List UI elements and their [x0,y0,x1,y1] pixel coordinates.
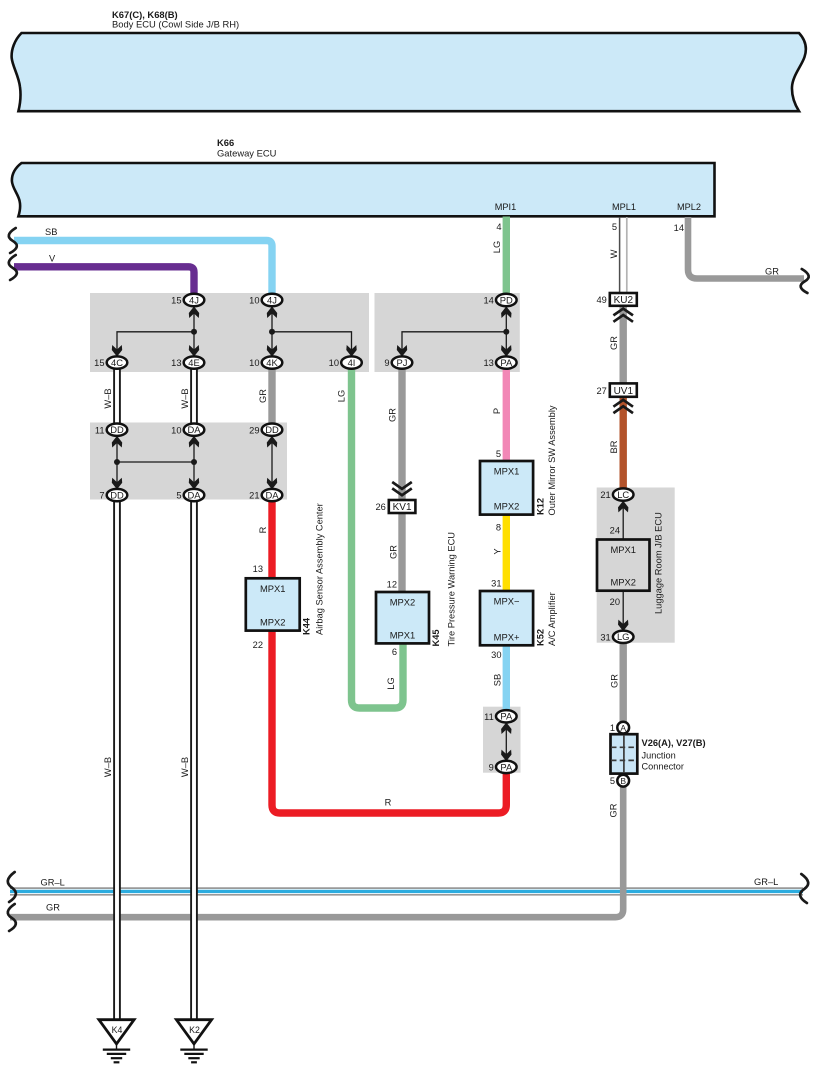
connector 4E pin 13 [171,356,204,368]
svg-text:9: 9 [489,763,494,773]
svg-text:Junction: Junction [642,750,676,760]
wire branch to PJ [402,332,506,357]
svg-text:22: 22 [253,640,263,650]
connector PD pin 14 [483,294,516,306]
break symbol V left [9,255,17,280]
connector UV1 pin 27 [596,383,636,396]
svg-text:11: 11 [484,712,494,722]
svg-text:13: 13 [253,564,263,574]
svg-text:4K: 4K [266,357,278,368]
wire LG MPI1 to PD [503,217,510,296]
junction dot B [269,329,275,335]
svg-text:LC: LC [617,489,629,500]
connector PA pin 9 [489,761,517,773]
ground K4 [99,1020,134,1063]
svg-text:A: A [620,723,626,733]
component MPX box of Luggage Room J/B ECU [597,540,650,591]
svg-text:PD: PD [500,294,513,305]
connector LG pin 31 [600,631,633,643]
svg-text:15: 15 [94,358,104,368]
arrow into 4C [112,345,122,357]
svg-text:Luggage Room J/B ECU: Luggage Room J/B ECU [654,512,664,614]
svg-text:K12: K12 [536,498,546,515]
svg-text:MPI1: MPI1 [495,202,516,212]
svg-text:31: 31 [491,579,501,589]
svg-text:MPX1: MPX1 [610,544,636,555]
wire GR PJ to KV1 [398,367,405,500]
svg-text:13: 13 [483,358,493,368]
arrow into LG31 [618,620,628,632]
arrow into 4I [346,345,356,357]
arrow into 4K [267,345,277,357]
svg-text:Tire Pressure Warning ECU: Tire Pressure Warning ECU [447,532,457,647]
svg-text:8: 8 [496,523,501,533]
svg-text:MPL2: MPL2 [677,202,701,212]
wire DD11 to DD7 link [116,436,118,489]
svg-text:W–B: W–B [180,757,190,777]
connector DA pin 21 [249,489,282,501]
svg-text:Gateway ECU: Gateway ECU [217,147,277,158]
svg-text:LG: LG [337,390,347,402]
svg-text:4J: 4J [267,294,277,305]
wire GR KV1 to K45 pin12 [398,513,405,592]
svg-text:6: 6 [392,647,397,657]
connector 4J pin 15 [171,294,204,306]
svg-text:5: 5 [176,491,181,501]
junction dot E [191,459,197,465]
svg-text:20: 20 [610,597,620,607]
svg-text:K52: K52 [536,629,546,646]
arrow into DD11 [112,436,122,448]
wire GR KU2 to UV1 [620,307,627,383]
svg-text:GR: GR [609,803,619,817]
svg-text:PJ: PJ [397,357,408,368]
wire DD29 to DA21 link [271,436,273,489]
svg-text:15: 15 [171,296,181,306]
wire PD to PA link [505,306,507,357]
wire W-B 4E to DA10 [191,367,197,424]
svg-text:B: B [620,776,626,786]
connector band DD/DA [90,423,287,500]
svg-text:K4: K4 [112,1025,123,1035]
component K44 Airbag Sensor Assembly Center [246,578,300,630]
wire W-B 4C to DD11 [114,367,120,424]
svg-text:DD: DD [110,424,124,435]
svg-text:4J: 4J [189,294,199,305]
wire DA10 to DA5 link [193,436,195,489]
svg-text:W: W [609,249,619,258]
junction connector circle A pin 1 [610,722,629,734]
svg-text:14: 14 [674,223,684,233]
svg-text:27: 27 [596,386,606,396]
break symbol SB left [9,228,17,253]
svg-text:V: V [49,254,56,264]
connector KU2 pin 49 [596,293,636,306]
ground K2 [176,1020,211,1063]
connector 4I pin 10 [329,356,362,368]
wire PA11 to PA9 link [505,722,507,761]
svg-text:GR–L: GR–L [41,878,65,888]
svg-text:5: 5 [496,449,501,459]
connector KV1 pin 26 [375,500,415,513]
wire GR 4K to DD [268,367,275,424]
svg-text:26: 26 [375,502,385,512]
svg-text:MPX−: MPX− [494,596,520,607]
connector DD pin 7 [99,489,127,501]
junction dot A [191,329,197,335]
wire 4J1 to 4E link [193,306,195,357]
arrow into PA9 [501,750,511,762]
svg-text:12: 12 [387,580,397,590]
svg-text:14: 14 [483,296,493,306]
wire GR LG31 to junction A [620,642,627,722]
svg-text:BR: BR [609,440,619,453]
svg-text:30: 30 [491,650,501,660]
connector PJ pin 9 [384,356,412,368]
svg-text:V26(A), V27(B): V26(A), V27(B) [642,738,706,748]
svg-text:R: R [258,526,268,533]
wire R K44 pin22 to PA9 [272,631,506,814]
svg-text:R: R [385,798,392,808]
wire W-B DD7 to ground K4 [114,500,120,1020]
svg-text:DA: DA [187,490,201,501]
svg-text:LG: LG [492,241,502,253]
svg-text:K44: K44 [302,617,312,635]
arrow into LC [618,501,628,513]
connector DD pin 11 [95,424,127,436]
connector band PA/PA [483,707,521,773]
svg-text:GR: GR [388,408,398,422]
svg-text:W–B: W–B [103,388,113,408]
svg-text:31: 31 [600,632,610,642]
svg-text:MPX1: MPX1 [494,466,520,477]
svg-text:Connector: Connector [642,761,684,771]
wire branch to 4C [117,332,194,357]
wire SB from Body ECU to 4J [14,241,272,296]
wire DD-DA crossover [117,461,194,463]
wire V from Body ECU to 4J [14,267,194,295]
connector 4K pin 10 [249,356,282,368]
shield arrow above KV1 [392,488,412,495]
wire R DA21 to K44 pin13 [268,500,275,578]
wire Y K12 pin8 to K52 pin31 [503,515,510,592]
wire 4J2 to 4K link [271,306,273,357]
arrow into 4J-2 [267,306,277,318]
arrow into 4E [189,345,199,357]
svg-text:W–B: W–B [180,388,190,408]
svg-text:7: 7 [99,491,104,501]
svg-text:MPX2: MPX2 [610,577,636,588]
svg-text:11: 11 [95,425,105,435]
svg-text:GR: GR [765,267,779,277]
arrow into PA11 [501,722,511,734]
arrow into DD29 [267,436,277,448]
arrow into PJ [397,345,407,357]
break symbol GR right [801,269,809,293]
svg-text:5: 5 [610,776,615,786]
svg-text:MPX2: MPX2 [494,501,520,512]
svg-text:LG: LG [386,677,396,689]
svg-text:49: 49 [596,295,606,305]
svg-text:A/C Amplifier: A/C Amplifier [547,592,557,646]
svg-text:GR: GR [258,389,268,403]
svg-text:13: 13 [171,358,181,368]
svg-text:MPL1: MPL1 [612,202,636,212]
arrow into DA21 [267,478,277,490]
arrow into PD [501,306,511,318]
svg-text:Airbag Sensor Assembly Center: Airbag Sensor Assembly Center [315,503,325,635]
junction connector circle B pin 5 [610,775,629,787]
svg-text:4E: 4E [188,357,199,368]
arrow into DA10 [189,436,199,448]
svg-text:21: 21 [249,491,259,501]
break symbol GR-L left [8,872,16,902]
svg-text:4I: 4I [348,357,356,368]
svg-text:MPX1: MPX1 [390,629,416,640]
svg-text:P: P [492,408,502,414]
arrow into PA [501,345,511,357]
ECU K66 Gateway ECU box [12,163,715,216]
svg-text:10: 10 [249,296,259,306]
svg-text:29: 29 [249,425,259,435]
svg-text:GR: GR [609,674,619,688]
svg-text:GR: GR [609,336,619,350]
connector 4J pin 10 [249,294,282,306]
svg-text:Body ECU (Cowl Side J/B RH): Body ECU (Cowl Side J/B RH) [112,19,239,30]
svg-text:Outer Mirror SW Assembly: Outer Mirror SW Assembly [547,405,557,515]
svg-text:K2: K2 [189,1025,200,1035]
svg-text:10: 10 [171,425,181,435]
connector LC pin 21 [600,488,633,500]
svg-text:PA: PA [500,711,513,722]
svg-text:UV1: UV1 [614,386,634,397]
connector DA pin 10 [171,424,204,436]
svg-text:5: 5 [612,222,617,232]
svg-text:PA: PA [500,761,513,772]
svg-text:SB: SB [493,674,503,686]
svg-text:PA: PA [500,357,513,368]
svg-text:W–B: W–B [103,757,113,777]
junction dot C [503,329,509,335]
svg-text:MPX2: MPX2 [260,617,286,628]
svg-text:DA: DA [265,490,279,501]
component K52 A/C Amplifier [480,591,533,645]
svg-text:4C: 4C [111,357,123,368]
svg-text:GR: GR [389,545,399,559]
component K45 Tire Pressure Warning ECU [376,592,429,643]
connector DD pin 29 [249,424,282,436]
svg-text:24: 24 [610,526,620,536]
svg-text:GR: GR [46,903,60,913]
wire LG 4I to K45 pin6 [352,367,404,708]
svg-text:21: 21 [600,490,610,500]
svg-text:DD: DD [265,424,279,435]
svg-text:10: 10 [249,358,259,368]
svg-text:KV1: KV1 [393,502,412,513]
connector 4C pin 15 [94,356,127,368]
break symbol GR-L right [800,874,808,903]
junction dot D [114,459,120,465]
svg-text:LG: LG [617,631,630,642]
svg-text:MPX+: MPX+ [494,631,520,642]
junction connector V26/V27 body [611,734,638,773]
wire LC to MPX box link [622,501,624,540]
wire P PA to K12 pin5 [503,368,510,461]
svg-text:4: 4 [496,222,501,232]
svg-text:Y: Y [493,548,503,554]
connector band 4J/4C/4E/4K/4I [90,293,369,372]
svg-text:DA: DA [187,424,201,435]
wire MPX box to LG link [622,591,624,632]
svg-text:MPX2: MPX2 [390,597,416,608]
connector DA pin 5 [176,489,204,501]
arrow into 4J-1 [189,306,199,318]
svg-text:K45: K45 [431,629,441,646]
wire GR junction B to left break [10,786,623,917]
wire GR MPL2 to right break [688,217,804,279]
connector band Luggage Room J/B ECU [597,488,675,643]
shield arrow below KU2 [613,309,633,316]
svg-text:DD: DD [110,490,124,501]
svg-text:KU2: KU2 [614,295,634,306]
svg-text:SB: SB [45,227,57,237]
wire W MPL1 to KU2 [620,217,627,293]
connector PA pin 13 [483,356,516,368]
connector band PD/PJ/PA [375,293,520,372]
component K12 Outer Mirror SW Assembly [480,461,533,515]
wire BR UV1 to LC [620,397,627,489]
arrow into DA5 [189,478,199,490]
arrow into DD7 [112,478,122,490]
svg-text:10: 10 [329,358,339,368]
break symbol GR bottom left [8,904,16,931]
shield arrow below UV1 [613,400,633,407]
wire W-B DA5 to ground K2 [191,500,197,1020]
wire branch to 4I [272,332,352,357]
svg-text:1: 1 [610,723,615,733]
svg-text:GR–L: GR–L [754,877,778,887]
wire GR-L horizontal [10,888,803,895]
svg-text:9: 9 [384,358,389,368]
svg-text:MPX1: MPX1 [260,583,286,594]
connector PA pin 11 [484,710,516,722]
wire SB K52 pin30 to PA11 [503,645,510,711]
ECU K67/K68 Body ECU box [12,33,806,111]
